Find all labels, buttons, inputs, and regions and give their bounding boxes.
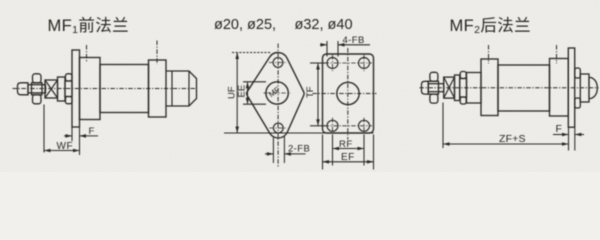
scan noise overlay (0, 0, 600, 172)
rod nut top facet right (430, 72, 438, 81)
rod bearing step (58, 77, 66, 101)
rear flange plate (568, 48, 574, 127)
bolt hole row centerline bottom (325, 125, 373, 127)
rod clevis block with cross (45, 80, 58, 98)
rear plug body (580, 74, 589, 102)
oval flange top bolt hole (269, 58, 287, 68)
rod end tip right (422, 81, 429, 94)
front collar top tab right (460, 72, 466, 79)
dimension 2-FB (265, 144, 310, 156)
front collar middle (65, 81, 72, 97)
title MF2 rear flange (450, 16, 532, 36)
rod clevis block right (444, 77, 455, 98)
EE top extension line (243, 81, 266, 83)
TF extension lines (310, 63, 326, 126)
EE bottom extension line (243, 103, 266, 105)
rear port centerline tick (156, 41, 158, 65)
cylinder tube (100, 65, 149, 113)
square flange pilot circle (337, 82, 359, 104)
rear collar bottom tab (575, 98, 581, 108)
bolt hole row centerline top (325, 62, 373, 64)
dimension RF (333, 139, 365, 151)
baseline extension (224, 132, 374, 134)
rod bearing step right (455, 75, 460, 101)
front head block right (481, 59, 498, 116)
EF extension lines (323, 135, 374, 170)
extension line rear flange front face (568, 128, 570, 151)
rear head block right (550, 59, 569, 117)
rear boss (166, 71, 197, 106)
bolt hole bottom-right (359, 118, 370, 134)
rod end tip (18, 83, 29, 95)
square flange outline (323, 54, 374, 133)
rear port tick right (556, 45, 558, 64)
front bushing right (467, 73, 482, 104)
4-FB extension lines (327, 41, 338, 57)
front flange plate (72, 50, 80, 127)
header bore sizes small (214, 17, 276, 33)
extension line flange front face (71, 128, 73, 142)
front head block (80, 58, 101, 120)
dimension UF (227, 53, 240, 134)
front port tick right (488, 45, 490, 64)
bolt hole top-left (327, 55, 338, 71)
dimension F front flange thickness (64, 126, 98, 138)
extension line flange rear face (79, 128, 81, 156)
rod nut body (32, 83, 43, 95)
front collar top tab (66, 74, 73, 81)
cylinder tube right (498, 65, 550, 111)
rod nut bottom facet right (430, 94, 438, 103)
dimension WF (44, 141, 80, 153)
rod nut body right (428, 81, 438, 94)
2-FB extension lines (273, 137, 284, 164)
bolt hole bottom-left (327, 118, 338, 134)
rod nut bottom facet (33, 95, 42, 104)
RF extension lines (333, 135, 365, 166)
oval flange outline (247, 52, 304, 137)
extension line from clevis face (43, 105, 45, 153)
dimension TF (305, 63, 320, 126)
rear plug dome (589, 78, 597, 99)
piston rod right (428, 84, 443, 92)
centerline of right cylinder (420, 87, 599, 89)
front collar bottom tab (66, 97, 73, 104)
header bore sizes large (295, 17, 353, 33)
dimension 4-FB (320, 35, 370, 47)
title MF1 front flange (48, 16, 130, 36)
rear collar top tab (575, 68, 581, 78)
dimension F rear flange thickness (553, 123, 584, 136)
square flange horizontal centerline (313, 93, 377, 95)
rear head block (149, 60, 167, 117)
oval flange vertical centerline (277, 44, 279, 168)
dimension ZF+S (443, 133, 569, 146)
oval flange pilot circle (264, 82, 291, 104)
bolt hole top-right (359, 55, 370, 71)
piston rod (28, 85, 46, 93)
front port centerline tick (86, 45, 88, 63)
UF top extension line (232, 52, 272, 54)
MF marking in circle (267, 85, 282, 99)
oval flange bottom bolt hole (269, 123, 287, 133)
front collar bottom tab right (460, 97, 466, 104)
rod nut top facet (33, 74, 42, 83)
dimension EE (237, 82, 250, 104)
extension line rod nut right (442, 103, 444, 149)
front collar middle right (460, 79, 467, 98)
extension line rear flange rear face (574, 128, 576, 151)
centerline of left cylinder (13, 88, 198, 90)
dimension EF (323, 152, 374, 163)
square flange vertical centerline (347, 48, 349, 140)
